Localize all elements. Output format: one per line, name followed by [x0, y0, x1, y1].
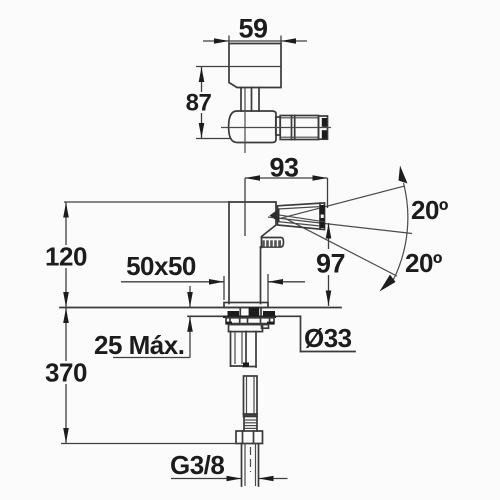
dim 50x50 left leader	[121, 281, 224, 283]
vertical centerline (top view)	[244, 88, 246, 153]
washer compressed line	[223, 316, 276, 318]
washer dark left block	[228, 311, 240, 316]
nut facet line 2	[239, 318, 241, 324]
handle lever inner top line	[278, 207, 320, 209]
dim 25 Max lower arrow	[187, 317, 193, 332]
dim 25 Max underline	[113, 357, 190, 359]
stud bottom edge	[231, 365, 247, 367]
dim G3/8 left line	[171, 478, 242, 480]
hose upper tube inner right	[253, 376, 255, 415]
dim 93 left extension	[244, 178, 246, 236]
hose dashed centerline	[250, 447, 252, 472]
dim 97 top arrow	[326, 224, 332, 239]
nut dark left corner	[226, 322, 232, 325]
dim G3/8 left arrow	[227, 476, 242, 482]
horizontal centerline (top view)	[221, 127, 331, 129]
cartridge dark square	[249, 307, 260, 316]
hex facet line 2	[253, 431, 255, 444]
body inner edge + 87 top extension line	[196, 66, 281, 68]
svg-text:50x50: 50x50	[126, 251, 196, 281]
handle end cap	[319, 116, 328, 139]
faucet body (top view)	[229, 44, 281, 88]
dim 370 bottom arrow	[63, 428, 69, 443]
dim 50x50 left extension	[223, 276, 225, 300]
hose thread hatch 2	[244, 422, 257, 424]
hose tail right line	[255, 332, 257, 368]
hose lower inner left	[244, 444, 246, 487]
lever cone tip (front view)	[270, 208, 280, 222]
dim 50x50 left arrow	[209, 279, 224, 285]
dimension 59 line	[203, 40, 307, 42]
hose lower left line	[241, 444, 243, 487]
dim 50x50 right leader	[268, 281, 305, 283]
svg-text:Ø33: Ø33	[304, 323, 352, 353]
dim 120 label halo	[44, 245, 88, 268]
hose upper tube	[244, 376, 258, 415]
swing arc top arrowhead	[399, 166, 408, 184]
spout outlet (front view)	[261, 238, 284, 248]
fan swing top line (+20)	[280, 186, 405, 219]
dim 87 bottom extension	[196, 138, 231, 140]
deck top line	[60, 307, 341, 309]
handle end notch bottom	[322, 130, 327, 139]
dim 120 top extension line	[64, 201, 229, 203]
swing arc	[393, 183, 408, 281]
dim 50x50 right extension	[267, 274, 269, 306]
hose tail bottom	[243, 366, 256, 368]
dim 87 bottom arrow	[199, 123, 205, 138]
dim 59 right extension	[280, 36, 282, 45]
dim 59 left arrow	[214, 38, 229, 44]
hose thread hatch 3	[244, 425, 257, 427]
dim 120 top arrow	[63, 203, 69, 218]
dim 93 right arrow	[313, 175, 328, 181]
hose thread hatch 1	[244, 419, 257, 421]
svg-text:93: 93	[269, 153, 299, 183]
svg-text:G3/8: G3/8	[170, 450, 224, 480]
threaded stud inner line 1	[234, 332, 236, 365]
hex facet line 1	[242, 431, 244, 444]
deck ledge line	[301, 351, 356, 353]
dim 97 line	[328, 223, 330, 306]
dim G3/8 right line	[259, 478, 288, 480]
dim 59 right arrow	[281, 38, 296, 44]
handle lever axis line	[278, 215, 325, 222]
shank right vertical through deck	[260, 308, 262, 316]
hex fitting	[236, 431, 263, 444]
svg-text:87: 87	[186, 90, 212, 117]
handle inner bottom line	[281, 136, 319, 138]
dim 87 top arrow	[199, 67, 205, 82]
fan swing bottom line (-20)	[285, 218, 397, 276]
handle neck (top view)	[276, 117, 280, 135]
flange below nut	[229, 325, 263, 332]
hose lower inner right	[255, 444, 257, 487]
dim 25 Max lower pointer	[189, 316, 191, 357]
dim 120 bottom arrow	[63, 292, 69, 307]
washer dark right block	[263, 311, 275, 316]
handle lever end cap line	[319, 203, 321, 229]
nut facet line 1	[229, 318, 231, 324]
svg-text:25 Máx.: 25 Máx.	[94, 330, 184, 360]
handle cylinder (top view)	[280, 116, 318, 140]
fan swing middle line	[268, 217, 412, 234]
dim 93 left arrow	[245, 175, 260, 181]
handle end notch top	[322, 118, 327, 127]
svg-text:20º: 20º	[411, 195, 449, 225]
hose joint line	[244, 416, 258, 418]
dim 93 line	[245, 177, 328, 179]
svg-text:370: 370	[45, 358, 87, 388]
hose section sides	[243, 417, 245, 432]
swing arc bottom arrowhead	[380, 275, 396, 292]
threaded stud inner line 2	[241, 332, 243, 365]
dim 370 label halo	[44, 361, 88, 384]
handle lever cylinder (front view)	[278, 203, 325, 230]
shank left vertical through deck	[239, 308, 241, 316]
mounting nut	[226, 318, 274, 324]
hose upper tube inner left	[246, 376, 248, 415]
threaded stud left line	[230, 332, 232, 367]
nut facet line 5	[269, 318, 271, 324]
hose lower right line	[258, 444, 260, 487]
deck bottom line	[188, 315, 301, 317]
deck step vertical	[300, 316, 302, 351]
base plate (front view)	[224, 303, 268, 308]
svg-text:59: 59	[238, 14, 268, 44]
nut facet line 3	[247, 318, 249, 324]
dim 370 top arrow	[63, 308, 69, 323]
spout aerator hatch	[263, 240, 282, 246]
dim 97 label halo	[315, 249, 344, 275]
handle lever inner bottom line	[278, 222, 320, 226]
dim 50x50 right arrow	[268, 279, 283, 285]
body left edge (front view)	[228, 202, 230, 304]
svg-text:97: 97	[316, 249, 345, 279]
faucet body (front view)	[229, 202, 276, 248]
nut facet line 4	[260, 318, 262, 324]
lever end cap dark lower	[320, 218, 325, 228]
dim 59 left extension	[228, 36, 230, 45]
dim 25 Max upper arrow	[187, 292, 193, 307]
hose tail dark nut	[243, 363, 249, 368]
threaded stud right line	[245, 332, 247, 367]
dim 370 line	[65, 308, 67, 444]
dim 93 right extension	[327, 178, 329, 208]
dim 25 Max upper pointer	[189, 286, 191, 308]
svg-text:20º: 20º	[405, 248, 443, 278]
nut dark right corner	[267, 322, 274, 325]
dim 97 bottom arrow	[326, 291, 332, 306]
handle ring lines	[291, 116, 293, 140]
dim 120 line	[65, 202, 67, 308]
hose thread hatch 4	[244, 427, 257, 429]
dim 370 bottom reference line	[61, 443, 236, 445]
valve capsule (top view)	[229, 111, 276, 143]
svg-text:120: 120	[45, 242, 87, 272]
hose crimp line	[244, 413, 258, 415]
body right edge lower (front view)	[260, 248, 262, 304]
dim G3/8 right arrow	[259, 476, 274, 482]
dim 87 label halo	[185, 92, 213, 113]
dimension 87 line	[201, 67, 203, 139]
handle inner top line	[281, 117, 319, 119]
lever end cap dark upper	[320, 205, 325, 215]
flange right step	[262, 325, 269, 329]
spout neck (top view)	[240, 88, 242, 112]
